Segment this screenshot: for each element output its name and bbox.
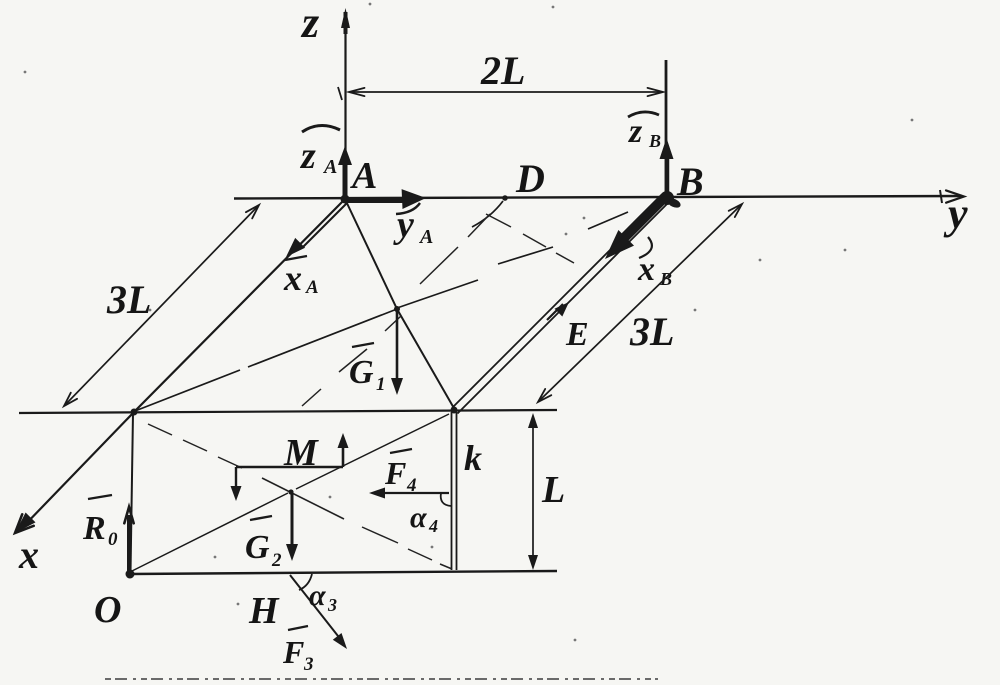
svg-text:4: 4 [406, 475, 417, 496]
svg-text:1: 1 [376, 374, 386, 395]
x axis [15, 199, 345, 577]
dimension 3L left [64, 205, 259, 406]
svg-text:x: x [637, 251, 655, 288]
svg-text:R: R [82, 510, 106, 547]
dimension L [528, 413, 565, 570]
svg-text:3L: 3L [106, 277, 151, 322]
svg-text:α: α [410, 501, 427, 534]
svg-text:L: L [541, 469, 565, 511]
reaction R_O [82, 495, 134, 572]
lower plate diagonal O-K [132, 414, 449, 571]
svg-text:3: 3 [303, 654, 314, 675]
post at B [665, 60, 668, 198]
svg-text:D: D [515, 156, 545, 201]
node K [451, 407, 458, 414]
svg-text:H: H [248, 590, 280, 632]
svg-text:F: F [384, 455, 406, 491]
svg-text:3L: 3L [629, 309, 674, 354]
svg-text:A: A [322, 156, 337, 178]
dashed line D to bar [486, 214, 574, 263]
svg-text:B: B [676, 159, 704, 204]
leader curve at D [472, 201, 503, 227]
reaction Z_B [628, 112, 674, 198]
force G1 [349, 310, 403, 395]
node D [502, 195, 508, 201]
bar B-K [452, 196, 670, 414]
svg-text:k: k [464, 438, 482, 478]
svg-text:E: E [565, 316, 589, 353]
svg-text:2L: 2L [480, 48, 525, 93]
angle a4 [441, 493, 451, 506]
lower plate left edge [131, 413, 134, 573]
force F4 [369, 449, 451, 536]
svg-text:O: O [94, 589, 121, 631]
svg-text:2: 2 [271, 550, 282, 571]
svg-text:3: 3 [327, 595, 337, 615]
plate diagonal A-K [345, 199, 455, 410]
force arrow at E [547, 302, 589, 353]
reaction X_A [283, 203, 347, 298]
svg-text:z: z [299, 135, 316, 177]
lower plate diagonal C-corner dashed [148, 424, 452, 569]
reaction Z_A [299, 125, 352, 197]
svg-text:0: 0 [108, 529, 118, 550]
svg-text:A: A [305, 277, 319, 298]
force F3 [282, 574, 347, 675]
svg-text:z: z [300, 0, 319, 47]
svg-text:z: z [628, 113, 643, 150]
node centre lower plate [288, 489, 293, 494]
couple M [231, 432, 349, 501]
svg-text:A: A [350, 155, 377, 197]
scan artifact bottom band [105, 678, 658, 680]
svg-text:A: A [418, 226, 433, 248]
svg-text:G: G [245, 529, 270, 566]
svg-text:F: F [282, 634, 304, 670]
svg-text:B: B [648, 131, 661, 151]
svg-text:M: M [283, 432, 319, 474]
svg-text:4: 4 [428, 516, 438, 536]
dashed 45-deg line through D [302, 214, 490, 406]
reaction Y_A [345, 189, 433, 248]
node centre of plate [394, 306, 400, 312]
force G2 [245, 494, 298, 571]
svg-text:x: x [18, 532, 39, 577]
specks [369, 3, 372, 6]
dimension 3L right [538, 204, 742, 402]
svg-text:y: y [393, 204, 414, 246]
node C corner [131, 409, 138, 416]
lower plate bottom edge [130, 571, 557, 574]
lower plate top edge [19, 410, 557, 413]
svg-text:α: α [309, 579, 326, 612]
angle a3 [299, 574, 312, 590]
node A [341, 195, 350, 204]
node B [660, 191, 674, 205]
bar at K (double) [452, 412, 457, 570]
z axis [300, 0, 350, 199]
y axis [234, 189, 968, 238]
node O [126, 570, 135, 579]
dimension 2L [338, 48, 663, 100]
svg-text:G: G [349, 354, 374, 391]
plate diagonal C-B (broken) [135, 212, 628, 411]
svg-text:x: x [283, 258, 302, 298]
reaction X_B [605, 197, 672, 289]
